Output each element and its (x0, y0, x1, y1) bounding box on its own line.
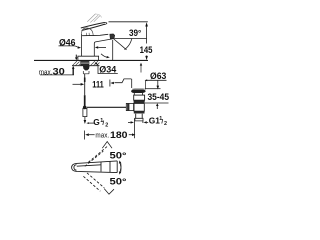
svg-text:Ø34: Ø34 (99, 65, 117, 75)
svg-text:2: 2 (164, 121, 167, 127)
svg-text:G: G (93, 117, 100, 127)
svg-text:50°: 50° (110, 150, 127, 160)
svg-text:2: 2 (105, 123, 108, 129)
svg-text:39°: 39° (129, 28, 142, 38)
svg-text:180: 180 (110, 130, 128, 140)
svg-text:/: / (102, 120, 104, 127)
svg-text:111: 111 (92, 80, 104, 90)
svg-text:max.: max. (95, 133, 109, 140)
svg-text:145: 145 (140, 45, 153, 55)
svg-text:Ø63: Ø63 (150, 71, 166, 81)
svg-text:50°: 50° (110, 177, 127, 187)
svg-text:35-45: 35-45 (148, 92, 170, 102)
svg-text:max.: max. (39, 70, 53, 77)
